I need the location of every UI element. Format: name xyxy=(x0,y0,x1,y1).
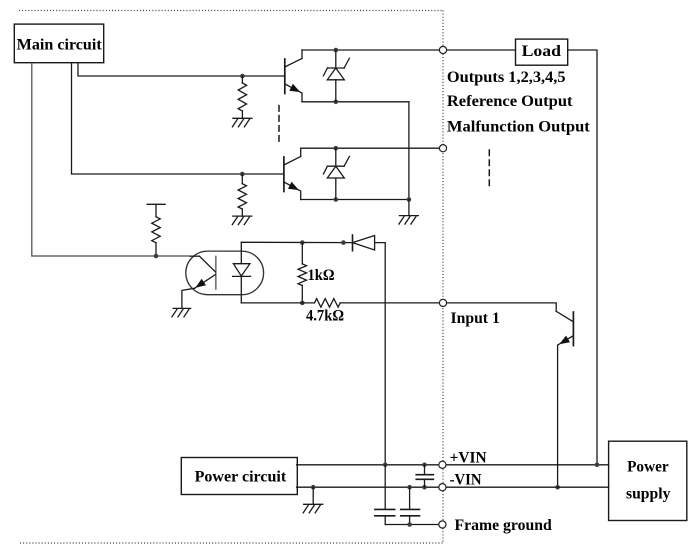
capacitor Y1 (+VIN to frame) xyxy=(375,465,395,525)
resistor pull-up (opto collector line) xyxy=(147,204,165,256)
svg-text:+VIN: +VIN xyxy=(450,449,487,466)
wire +VIN rail xyxy=(297,464,609,466)
junction zener ZD1 bottom xyxy=(334,100,339,105)
svg-text:-VIN: -VIN xyxy=(450,471,482,488)
Power circuit block xyxy=(181,458,297,495)
transistor Q2 (malfunction output stage) xyxy=(284,148,301,199)
junction zener ZD1 top xyxy=(334,48,339,53)
resistor 4.7k xyxy=(315,299,341,308)
capacitor X (+VIN to -VIN) xyxy=(416,465,433,487)
unit outline dashed right xyxy=(442,11,444,544)
wire main circuit to Q1 base xyxy=(78,63,285,76)
wire Q2 emitter rail xyxy=(301,199,409,201)
wire diode D1 to +VIN rail xyxy=(375,243,386,465)
ground below Q2 base resistor xyxy=(232,216,252,225)
junction cap Y2 / -VIN xyxy=(407,485,412,490)
junction cap Y2 / frame rail xyxy=(407,522,412,527)
ground below Q1 base resistor xyxy=(232,118,252,127)
svg-text:1kΩ: 1kΩ xyxy=(308,267,335,284)
Power supply block xyxy=(609,441,687,520)
wire emitter common to ground xyxy=(408,200,410,216)
svg-text:Frame ground: Frame ground xyxy=(455,517,552,534)
svg-text:Power: Power xyxy=(627,459,669,476)
wire stage1 emitter to stage2 emitter xyxy=(408,102,410,200)
svg-text:Load: Load xyxy=(522,43,561,60)
transistor Q3 (input) xyxy=(556,311,573,487)
junction zener ZD2 bottom xyxy=(334,197,339,202)
junction power circuit ground xyxy=(311,485,316,490)
junction opto wire / pull-up resistor xyxy=(154,254,159,259)
terminal Frame ground xyxy=(439,521,446,528)
Main circuit block xyxy=(14,24,103,63)
terminal +VIN xyxy=(439,461,446,468)
resistor Q2 base pulldown xyxy=(238,174,246,216)
junction before diode D1 xyxy=(341,240,346,245)
wire Q1 emitter rail xyxy=(302,101,409,103)
wire LED anode rail to diode xyxy=(241,241,352,243)
resistor 1k xyxy=(298,243,306,303)
wire LED cathode to 4.7k xyxy=(241,302,314,304)
ground power circuit xyxy=(303,504,323,513)
wire main circuit to optocoupler xyxy=(32,63,190,256)
wire frame ground rail xyxy=(385,524,439,526)
transistor Q1 (output stage) xyxy=(285,50,302,102)
wire -VIN rail xyxy=(297,486,609,488)
junction LED cathode / 4.7k rail xyxy=(300,301,305,306)
wire main circuit to Q2 base xyxy=(72,63,284,174)
junction Q2 base wire / resistor xyxy=(240,172,245,177)
svg-text:Outputs 1,2,3,4,5: Outputs 1,2,3,4,5 xyxy=(447,69,566,86)
terminal Outputs xyxy=(439,46,446,53)
resistor Q1 base pulldown xyxy=(238,76,246,118)
svg-text:Reference Output: Reference Output xyxy=(447,93,573,110)
ground optocoupler emitter xyxy=(172,308,191,317)
wire Q1 collector rail xyxy=(302,49,439,51)
unit outline dashed bottom xyxy=(20,542,443,544)
optocoupler LED xyxy=(233,242,251,303)
unit outline dashed top xyxy=(19,10,443,12)
Load block xyxy=(516,39,568,65)
junction 1k top xyxy=(300,240,305,245)
dashed continuation between output stages xyxy=(278,106,280,143)
junction Q3 emitter / -VIN rail xyxy=(555,485,560,490)
dashed continuation below outputs xyxy=(488,150,490,189)
svg-text:supply: supply xyxy=(626,486,670,503)
diode D1 xyxy=(353,235,375,251)
junction Q1 base wire / resistor xyxy=(240,74,245,79)
terminal Input 1 xyxy=(439,299,446,306)
svg-text:Power circuit: Power circuit xyxy=(195,468,287,485)
wire 4.7k to Input 1 terminal xyxy=(340,302,439,304)
capacitor Y2 (-VIN to frame) xyxy=(401,487,420,524)
wire power circuit ground stub xyxy=(312,487,314,504)
zener diode ZD1 xyxy=(323,50,349,102)
terminal -VIN xyxy=(439,484,446,491)
zener diode ZD2 xyxy=(323,148,349,199)
svg-text:4.7kΩ: 4.7kΩ xyxy=(306,308,344,325)
junction cap Y1 / +VIN xyxy=(383,463,388,468)
junction zener ZD2 top xyxy=(334,146,339,151)
wire output1 terminal to Load xyxy=(443,49,516,51)
junction cap X / +VIN xyxy=(422,463,427,468)
junction load line / +VIN xyxy=(595,463,600,468)
optocoupler phototransistor xyxy=(182,256,216,308)
wire Q2 collector rail xyxy=(301,147,440,149)
svg-text:Input 1: Input 1 xyxy=(451,310,500,327)
terminal Malfunction Output xyxy=(439,145,446,152)
junction cap X / -VIN xyxy=(422,485,427,490)
junction emitter common xyxy=(407,197,412,202)
wire Input 1 terminal to Q3 collector xyxy=(447,303,557,311)
svg-text:Malfunction Output: Malfunction Output xyxy=(447,118,591,135)
svg-text:Main circuit: Main circuit xyxy=(17,36,103,53)
optocoupler package outline xyxy=(186,251,264,295)
ground output emitter common xyxy=(399,216,419,225)
wire Load to +VIN rail xyxy=(568,50,597,465)
